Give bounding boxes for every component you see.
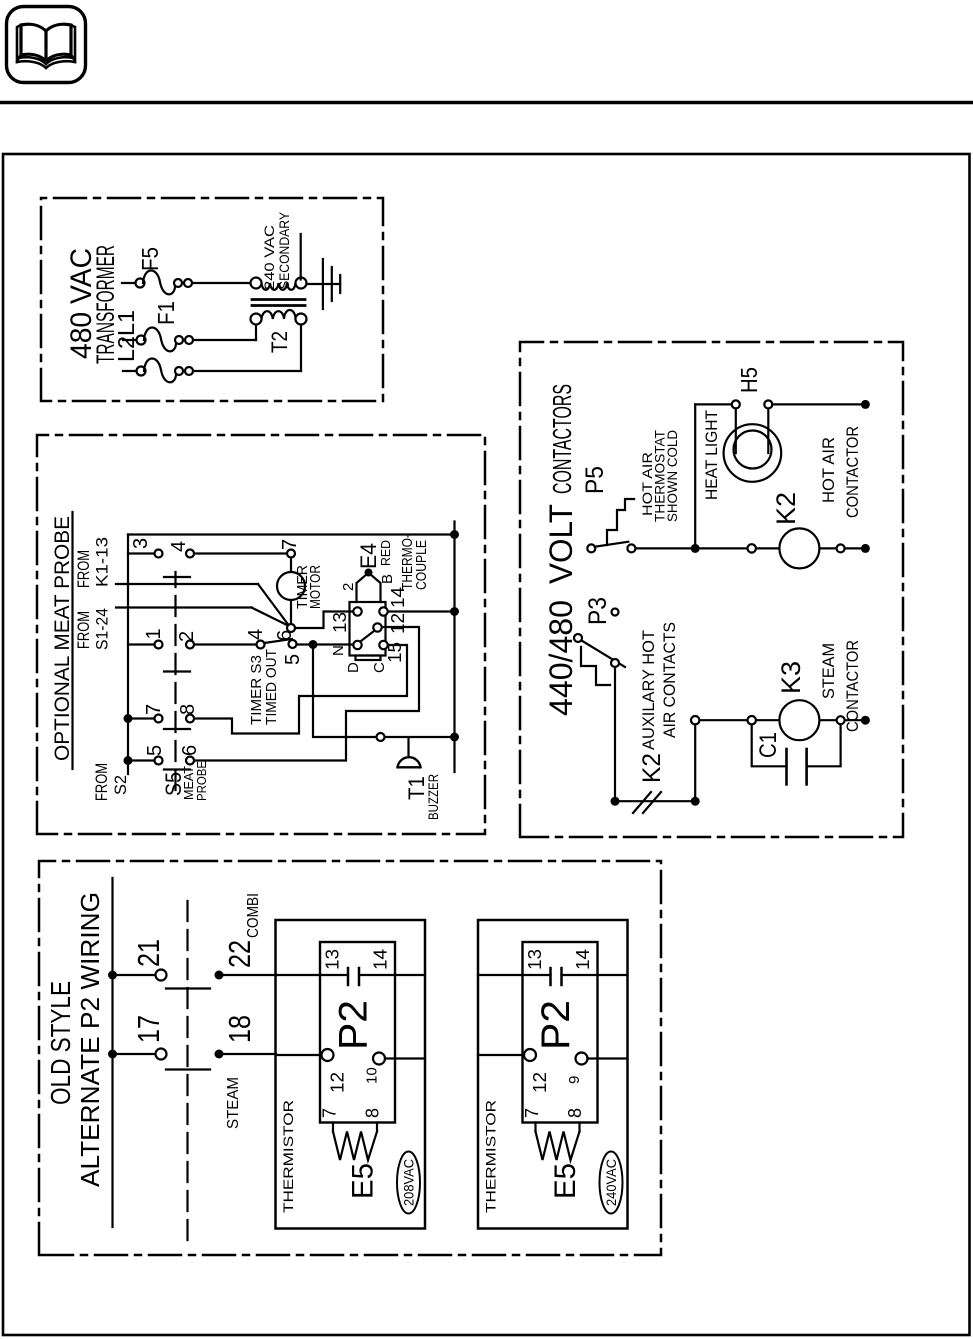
transformer T2 primary winding (262, 310, 296, 319)
P3 contact (611, 659, 619, 667)
P3 bimetal staircase (581, 647, 610, 685)
wire (193, 339, 256, 341)
svg-text:AIR CONTACTS: AIR CONTACTS (660, 622, 679, 738)
svg-text:7: 7 (143, 704, 165, 715)
K3 rung corner contact (691, 716, 699, 724)
svg-text:SHOWN COLD: SHOWN COLD (664, 430, 680, 522)
svg-text:15: 15 (385, 642, 405, 663)
wire pin 14 (562, 974, 628, 976)
ground (307, 283, 341, 285)
svg-text:2: 2 (176, 631, 198, 642)
svg-text:P5: P5 (581, 466, 609, 494)
wire 8 to pin 15 (195, 645, 407, 734)
wire H5 to bus (772, 403, 865, 405)
svg-text:4: 4 (168, 541, 190, 552)
wire from K1-13 (116, 583, 258, 585)
svg-text:13: 13 (525, 949, 545, 970)
svg-text:C: C (371, 662, 388, 673)
wire pin 12 (478, 1054, 524, 1056)
P5 bimetal staircase (607, 499, 634, 545)
pin 9 socket (576, 1053, 588, 1065)
K2 aux contact slashes (633, 792, 651, 813)
heat light branch wire (694, 404, 696, 548)
pin 12 socket (524, 1049, 536, 1061)
svg-text:7: 7 (279, 539, 301, 550)
svg-text:9: 9 (566, 1076, 583, 1084)
capacitor pins 13-14 (347, 968, 350, 985)
wire pin 12 (276, 1054, 322, 1056)
svg-text:K3: K3 (776, 661, 806, 694)
svg-text:12: 12 (328, 1072, 348, 1093)
contact 8 S5 (186, 715, 194, 723)
svg-text:FROM: FROM (74, 611, 93, 649)
optional meat probe box border (37, 435, 485, 834)
contact 5 S5 (155, 757, 163, 765)
bus riser wire (128, 533, 455, 535)
svg-text:COUPLE: COUPLE (413, 540, 430, 590)
timer S3 contact 5 (289, 640, 297, 648)
svg-text:RED: RED (378, 540, 393, 566)
svg-text:FROM: FROM (74, 550, 93, 588)
wire P3 to K2 aux (614, 667, 616, 801)
svg-text:THERMISTOR: THERMISTOR (483, 1100, 499, 1213)
svg-text:P2: P2 (332, 1000, 376, 1050)
wire pin 10 out (385, 1057, 425, 1059)
svg-text:PROBE: PROBE (194, 761, 209, 801)
svg-text:COMBI: COMBI (245, 893, 262, 938)
208VAC badge (397, 1152, 420, 1214)
svg-text:F1: F1 (153, 301, 179, 325)
thermistor E5 (332, 1123, 334, 1132)
contact line 1-2-4-5 (128, 643, 154, 645)
svg-text:E5: E5 (347, 1163, 380, 1199)
transformer 240vac secondary winding (262, 283, 296, 290)
contact 7 timer motor (287, 550, 295, 558)
timer motor M1 (290, 559, 292, 573)
junction node (309, 640, 318, 649)
svg-text:8: 8 (363, 1108, 383, 1118)
timer S3 contact 4 (257, 641, 265, 649)
svg-text:5: 5 (282, 654, 304, 665)
svg-text:STEAM: STEAM (225, 1077, 242, 1129)
svg-text:CONTACTOR: CONTACTOR (843, 640, 862, 732)
pin 12 middle (373, 623, 381, 631)
svg-text:CONTACTORS: CONTACTORS (547, 384, 577, 494)
K3 contactor coil (779, 700, 819, 740)
svg-text:L2L1: L2L1 (113, 310, 139, 362)
header rule (0, 101, 973, 104)
svg-text:10: 10 (364, 1067, 381, 1084)
contact 7 S5 (155, 715, 163, 723)
contact line 5-6 (124, 756, 133, 765)
contact 3 (155, 550, 163, 558)
coupling tick S3a (164, 576, 190, 578)
svg-text:F5: F5 (137, 247, 163, 271)
contact 2 (186, 641, 194, 649)
svg-text:K2: K2 (771, 492, 801, 525)
connector tab D-C (356, 656, 381, 661)
svg-text:240 VAC: 240 VAC (262, 225, 277, 290)
connector P2 block (320, 942, 395, 1123)
K2 contactor coil (748, 544, 756, 552)
wire K2aux down to K3 rung (615, 800, 695, 802)
P5 thermostat start (587, 544, 595, 552)
K2 rung wire (631, 547, 865, 549)
wire (123, 339, 137, 341)
node 6 (287, 624, 295, 632)
svg-text:AUXILARY HOT: AUXILARY HOT (639, 630, 658, 750)
svg-text:6: 6 (179, 745, 201, 756)
pin 15 (379, 641, 387, 649)
mech coupling dashed line (186, 894, 188, 1240)
svg-text:14: 14 (573, 949, 593, 970)
wire pin 14 (359, 974, 425, 976)
contact 6 S5 (186, 757, 194, 765)
svg-text:4: 4 (245, 629, 267, 640)
book icon (7, 7, 86, 83)
contact line 7-8 (124, 714, 133, 723)
switch blade S3 (265, 639, 293, 643)
buzzer T1 (407, 738, 409, 755)
svg-text:440/480: 440/480 (543, 600, 579, 716)
svg-text:C1: C1 (755, 732, 782, 758)
svg-text:S1-24: S1-24 (93, 608, 112, 650)
wire (122, 282, 136, 284)
svg-text:E5: E5 (549, 1163, 582, 1199)
pin 14 (379, 607, 387, 615)
capacitor pins 13-14 (549, 968, 552, 985)
svg-text:ALTERNATE P2 WIRING: ALTERNATE P2 WIRING (75, 892, 105, 1187)
wire pin 13 (478, 974, 551, 976)
node 22 (215, 971, 224, 980)
svg-text:K1-13: K1-13 (93, 537, 112, 587)
wire pin 13 (276, 974, 349, 976)
thermostat switch block (350, 602, 386, 656)
pin 13 (353, 607, 361, 615)
switch blade N-12 (361, 631, 374, 641)
contact line 3-4-7 (128, 552, 154, 554)
svg-text:18: 18 (222, 1015, 257, 1043)
svg-text:8: 8 (565, 1108, 585, 1118)
svg-text:21: 21 (131, 939, 166, 967)
wire secondary output stub (300, 234, 302, 280)
thermistor sub-box 208VAC (276, 920, 426, 1229)
svg-text:CONTACTOR: CONTACTOR (843, 426, 862, 518)
svg-text:13: 13 (330, 612, 350, 633)
P5 blade (595, 542, 629, 547)
svg-text:D: D (345, 662, 362, 673)
svg-text:B: B (379, 574, 396, 584)
svg-text:N: N (330, 645, 347, 656)
contact 21 (108, 971, 117, 980)
svg-text:3: 3 (130, 538, 152, 549)
svg-text:HOT AIR: HOT AIR (819, 437, 838, 503)
wire 6 to pin 12 (195, 627, 419, 761)
svg-text:14: 14 (371, 949, 391, 970)
wire (123, 370, 137, 372)
feed bus wire (111, 878, 113, 1227)
capacitor C1 (752, 725, 787, 766)
mech coupling dashed line (174, 572, 176, 790)
wire pin14 to bus (389, 610, 455, 612)
contact 1 (155, 641, 163, 649)
P3 terminal circle (612, 609, 619, 616)
svg-text:1: 1 (143, 628, 165, 639)
svg-text:13: 13 (323, 949, 343, 970)
contact 17 bar (166, 1068, 210, 1070)
P3 switch (574, 634, 582, 642)
svg-text:BUZZER: BUZZER (425, 774, 441, 820)
bottom bus wire (453, 522, 455, 773)
wire (192, 282, 251, 284)
svg-text:7: 7 (522, 1108, 542, 1118)
pin 12 socket (322, 1049, 334, 1061)
svg-text:P3: P3 (584, 597, 612, 625)
svg-text:FROM: FROM (92, 763, 111, 801)
440/480 volt contactors box border (520, 342, 903, 837)
svg-text:TIMED OUT: TIMED OUT (263, 649, 280, 725)
wire junction to buzzer line (313, 645, 455, 738)
wire pin 9 out (588, 1057, 628, 1059)
svg-text:7: 7 (320, 1108, 340, 1118)
wire (193, 370, 301, 372)
transformer core (252, 304, 305, 307)
junction heat light (691, 544, 700, 553)
title underline (71, 512, 73, 769)
svg-text:8: 8 (177, 704, 199, 715)
contact 4 (186, 550, 194, 558)
svg-text:SECONDARY: SECONDARY (277, 212, 292, 289)
coupling tick S5b (164, 768, 190, 770)
connector P2 block (523, 942, 598, 1123)
pin 10 socket (373, 1053, 385, 1065)
thermistor sub-box 240VAC (478, 920, 628, 1229)
wire pin13 to node6 (296, 612, 353, 629)
thermistor E5 (534, 1123, 536, 1132)
svg-text:17: 17 (131, 1015, 166, 1043)
pin N (353, 641, 361, 649)
wire 18 to thermistor box (219, 1053, 276, 1055)
contact 17 (108, 1050, 117, 1059)
svg-text:2: 2 (340, 583, 357, 591)
svg-text:208VAC: 208VAC (402, 1159, 417, 1206)
svg-text:P2: P2 (534, 1000, 578, 1050)
svg-text:HEAT LIGHT: HEAT LIGHT (702, 410, 721, 500)
240VAC badge (600, 1152, 623, 1214)
wire from S1-24 (116, 606, 252, 608)
coupling tick S5a (164, 728, 190, 730)
svg-text:K2: K2 (638, 753, 666, 783)
thermocouple E4 leads (357, 574, 368, 603)
svg-text:12: 12 (388, 613, 408, 634)
svg-text:S2: S2 (111, 775, 130, 795)
svg-text:OPTIONAL MEAT PROBE: OPTIONAL MEAT PROBE (51, 516, 74, 761)
svg-text:T2: T2 (267, 331, 292, 353)
thermocouple tip node (365, 569, 373, 577)
svg-text:OLD STYLE: OLD STYLE (45, 981, 76, 1105)
svg-text:12: 12 (530, 1072, 550, 1093)
svg-text:MOTOR: MOTOR (307, 565, 324, 609)
K3 rung wire (700, 719, 865, 721)
H5 heat light lamp (735, 408, 737, 453)
wire 22 to thermistor box (219, 974, 276, 976)
contact 21 bar (166, 987, 210, 989)
P3 blade (582, 641, 626, 668)
480 VAC transformer box border (41, 198, 383, 401)
svg-text:22: 22 (222, 940, 257, 968)
top rail wire (127, 535, 129, 775)
svg-text:240VAC: 240VAC (604, 1159, 619, 1206)
old style alternate P2 wiring box border (39, 861, 661, 1255)
svg-text:STEAM: STEAM (819, 643, 838, 699)
svg-text:H5: H5 (736, 367, 762, 393)
node 18 (215, 1050, 224, 1059)
svg-text:VOLT: VOLT (543, 504, 579, 584)
svg-text:THERMISTOR: THERMISTOR (280, 1100, 296, 1213)
svg-text:5: 5 (144, 745, 166, 756)
inline connector circle (377, 733, 385, 741)
coupling tick S3b (164, 670, 190, 672)
